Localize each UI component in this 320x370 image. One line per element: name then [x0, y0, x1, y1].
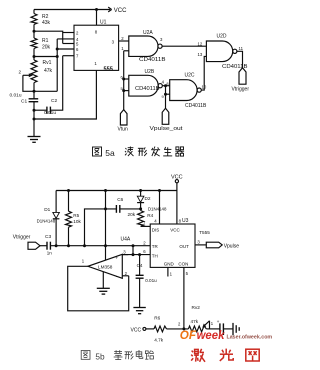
capacitor C1	[10, 91, 39, 136]
svg-text:U4A: U4A	[121, 236, 131, 242]
svg-text:R5: R5	[73, 213, 79, 218]
resistor R2	[31, 10, 51, 32]
capacitor C2	[33, 98, 58, 116]
Rv1 wiper arrow	[19, 70, 58, 92]
svg-text:12: 12	[198, 41, 203, 46]
char 发	[151, 147, 160, 157]
svg-text:D1: D1	[44, 207, 50, 212]
ground (op-amp)	[97, 272, 110, 294]
wire: op-amp feedback loop	[68, 266, 129, 311]
svg-text:R2: R2	[42, 14, 49, 20]
svg-text:20k: 20k	[42, 45, 51, 51]
svg-text:Rv2: Rv2	[192, 305, 201, 310]
svg-text:5: 5	[76, 42, 79, 47]
svg-text:U2D: U2D	[217, 34, 227, 40]
wire: U2B out to U2C	[162, 80, 170, 86]
capacitor C5	[206, 319, 233, 335]
U3 top stubs (pins 4,8)	[154, 191, 181, 225]
char 激	[191, 349, 205, 362]
svg-text:VCC: VCC	[131, 327, 142, 333]
watermark OFweek logo	[180, 328, 273, 342]
char 光	[220, 349, 233, 361]
svg-text:3: 3	[123, 249, 126, 254]
svg-text:7: 7	[143, 221, 146, 226]
svg-text:CD4011B: CD4011B	[139, 57, 166, 63]
char 波	[125, 147, 134, 157]
char 路	[145, 351, 154, 360]
svg-text:3: 3	[160, 37, 163, 42]
diode D1	[37, 191, 60, 246]
ground (sideways)	[233, 323, 239, 335]
capacitor C6	[85, 197, 143, 246]
svg-text:C3: C3	[45, 234, 51, 240]
svg-text:week: week	[197, 328, 226, 342]
wire: TH net (B)	[122, 241, 150, 257]
svg-text:GND: GND	[164, 261, 175, 266]
svg-text:555: 555	[104, 66, 113, 72]
svg-text:+: +	[116, 256, 119, 261]
VCC terminal + resistor R6	[131, 315, 189, 342]
char 电	[136, 350, 143, 358]
svg-text:13: 13	[198, 52, 203, 57]
caption fig 5a : 图 5a 波形发生器	[93, 147, 185, 159]
svg-text:U1: U1	[100, 20, 107, 26]
svg-text:LM358: LM358	[98, 264, 113, 269]
svg-text:47k: 47k	[44, 68, 53, 74]
resistor R1	[31, 31, 51, 56]
svg-text:43k: 43k	[42, 20, 51, 26]
svg-text:0.01u: 0.01u	[145, 278, 157, 283]
watermark 激光网	[191, 349, 259, 362]
caption fig 5b : 图 5b 整形电路	[81, 350, 154, 361]
wire: U2A out to U2D pin12	[162, 45, 206, 47]
node: wiper / C1 junction	[33, 90, 36, 93]
capacitor C4	[136, 255, 158, 308]
op-amp/timer U1 (555) box	[74, 8, 119, 72]
VCC power symbol	[108, 7, 127, 14]
svg-text:0.01u: 0.01u	[10, 93, 22, 99]
svg-text:+: +	[217, 319, 220, 324]
svg-text:6: 6	[76, 47, 79, 52]
svg-text:3: 3	[197, 239, 200, 244]
char 生	[163, 147, 172, 156]
svg-text:1n: 1n	[47, 251, 53, 256]
svg-text:4: 4	[154, 219, 157, 224]
svg-text:R4: R4	[147, 213, 153, 218]
svg-text:VCC: VCC	[114, 8, 127, 14]
U1 left pin stubs	[57, 33, 74, 56]
svg-text:C2: C2	[51, 98, 57, 104]
svg-text:2: 2	[125, 271, 128, 276]
svg-text:R1: R1	[42, 38, 49, 44]
NAND gate U2A	[129, 30, 167, 63]
svg-text:2: 2	[76, 31, 79, 36]
svg-text:10k: 10k	[73, 219, 81, 224]
svg-text:U3: U3	[182, 218, 189, 224]
wire: CON pin5 down	[182, 267, 188, 330]
svg-text:U2A: U2A	[143, 30, 153, 36]
node + wire to Vpulse_out	[162, 84, 170, 108]
NAND gate U2C	[170, 73, 207, 110]
svg-text:Vpulse: Vpulse	[224, 244, 240, 250]
svg-text:CON: CON	[178, 261, 188, 266]
wire: U3 OUT to Vpulse	[195, 239, 206, 245]
capacitor C3	[40, 234, 52, 255]
svg-text:1: 1	[94, 61, 97, 66]
svg-text:7: 7	[76, 54, 79, 59]
svg-text:2: 2	[143, 241, 146, 246]
svg-text:OUT: OUT	[179, 244, 189, 249]
timer U3 (T555) box	[150, 218, 210, 267]
svg-text:47k: 47k	[191, 319, 199, 324]
VCC power symbol (bottom)	[171, 174, 183, 190]
ground (top circuit)	[28, 137, 41, 143]
svg-text:D1N4148: D1N4148	[37, 219, 56, 224]
char 整	[114, 350, 123, 359]
svg-text:D1N4148: D1N4148	[148, 207, 167, 212]
resistor R4	[128, 211, 154, 227]
svg-text:DIS: DIS	[152, 227, 160, 232]
svg-text:OF: OF	[180, 328, 197, 342]
resistor R5	[66, 191, 82, 246]
port Vtun	[118, 110, 129, 133]
svg-text:1: 1	[170, 272, 173, 277]
port Vtrigger (top)	[232, 68, 250, 93]
svg-text:Rv1: Rv1	[43, 60, 52, 66]
svg-text:CD4011B: CD4011B	[185, 103, 207, 109]
svg-text:CD4011B: CD4011B	[135, 86, 160, 92]
svg-text:3: 3	[112, 39, 115, 44]
svg-text:T555: T555	[199, 230, 210, 235]
svg-text:4: 4	[162, 80, 165, 85]
svg-text:5b: 5b	[95, 351, 105, 361]
char 形	[138, 147, 147, 156]
potentiometer Rv2	[178, 305, 214, 332]
NAND gate U2B	[129, 69, 162, 96]
wire: R1/Rv1 junction to pins	[33, 55, 58, 58]
svg-text:Vtrigger: Vtrigger	[232, 87, 250, 93]
char 网	[246, 349, 259, 361]
svg-text:Vtrigger: Vtrigger	[13, 234, 31, 240]
svg-text:C1: C1	[21, 99, 27, 105]
NAND gate U2D	[198, 34, 249, 70]
svg-text:Vpulse_out: Vpulse_out	[150, 126, 184, 132]
U3 pin1 stub	[168, 267, 173, 276]
wire: op-amp V+ vertical	[104, 191, 107, 261]
char 器	[175, 147, 184, 156]
wire: R2/R1 junction to U1 pin	[33, 30, 63, 33]
port Vpulse	[206, 242, 239, 249]
svg-text:U2B: U2B	[145, 69, 155, 75]
wire: U2A pin1 stub / vertical bus	[121, 46, 129, 110]
U2B input stubs	[121, 74, 129, 92]
svg-text:2: 2	[178, 322, 181, 327]
svg-text:0.01u: 0.01u	[44, 110, 56, 116]
svg-text:8: 8	[95, 30, 98, 35]
svg-text:TR: TR	[152, 244, 159, 249]
svg-text:5: 5	[186, 271, 189, 276]
VCC rail top	[34, 9, 110, 11]
wire: U2D out to Vtrigger flag	[237, 51, 243, 68]
svg-text:1: 1	[82, 259, 85, 264]
svg-text:4.7k: 4.7k	[154, 337, 164, 342]
svg-text:C4: C4	[137, 263, 143, 268]
svg-text:20k: 20k	[128, 212, 136, 217]
VCC rail (bottom circuit)	[56, 189, 177, 192]
svg-text:VCC: VCC	[171, 174, 183, 180]
port Vpulse_out	[150, 108, 184, 132]
svg-text:5a: 5a	[105, 148, 115, 158]
wire: U2C out up to U2D pin13	[201, 56, 206, 90]
port Vtrigger (input)	[13, 234, 40, 249]
svg-text:2: 2	[121, 36, 124, 41]
svg-text:2: 2	[19, 70, 22, 75]
wire: U1 pin1 return	[33, 70, 97, 120]
wire: input net A	[50, 244, 150, 247]
char 形	[125, 351, 134, 360]
svg-text:VCC: VCC	[170, 227, 180, 232]
svg-text:C6: C6	[117, 197, 123, 202]
svg-text:6: 6	[143, 249, 146, 254]
svg-text:1: 1	[211, 321, 214, 326]
potentiometer Rv1	[31, 57, 53, 92]
svg-text:U2C: U2C	[185, 73, 195, 79]
svg-text:Vtun: Vtun	[118, 126, 129, 132]
ground (C4)	[133, 308, 145, 314]
svg-text:D2: D2	[145, 196, 151, 201]
svg-text:1: 1	[121, 46, 124, 51]
wire: pins 2/6 vertical	[56, 39, 59, 91]
op-amp U4A (LM358)	[82, 236, 131, 280]
char 图	[93, 147, 102, 156]
wire: U1 pin3 output to U2A	[119, 36, 129, 41]
diode D2	[137, 191, 167, 212]
char 图	[81, 351, 90, 360]
svg-text:Laser.ofweek.com: Laser.ofweek.com	[227, 334, 273, 340]
wire: pin5 to C2	[50, 56, 62, 110]
svg-text:TH: TH	[152, 254, 158, 259]
svg-text:R6: R6	[154, 315, 160, 320]
svg-text:11: 11	[239, 46, 244, 51]
